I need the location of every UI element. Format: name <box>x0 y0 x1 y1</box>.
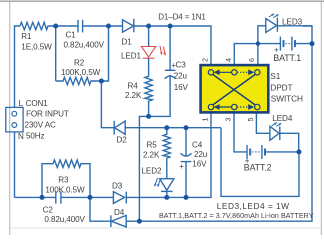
svg-text:LED2: LED2 <box>142 167 162 176</box>
svg-text:1E,0.5W: 1E,0.5W <box>21 43 52 52</box>
wire LED2 to bottom <box>166 191 168 197</box>
resistor R4 <box>145 75 152 101</box>
diode D1 <box>123 20 134 32</box>
wire node to C3 bottom <box>149 75 171 117</box>
node R2 right junction <box>99 79 104 84</box>
wire LED1 to R4 <box>148 58 150 75</box>
LED2 <box>160 179 174 191</box>
svg-text:R5: R5 <box>147 141 158 150</box>
wire LED3 right lead <box>277 25 312 27</box>
capacitor C1 <box>77 20 79 33</box>
wire pin4 riser <box>234 44 258 66</box>
pole line bottom <box>215 106 232 108</box>
svg-text:SWITCH: SWITCH <box>271 94 303 104</box>
svg-text:+: + <box>179 162 184 171</box>
node C1/D1/D2 junction <box>106 24 111 29</box>
wire D1 to pin2 corner <box>134 26 211 65</box>
bottom rail left segment <box>15 196 56 198</box>
svg-text:BATT.1,BATT.2 = 3.7V,860mAh Li: BATT.1,BATT.2 = 3.7V,860mAh Li-ion BATTE… <box>159 212 314 220</box>
resistor R5 <box>163 133 170 158</box>
battery BATT.1 <box>258 43 281 45</box>
svg-text:D4: D4 <box>114 208 125 217</box>
svg-text:D2: D2 <box>117 136 128 145</box>
svg-text:50Hz: 50Hz <box>26 132 45 141</box>
svg-text:BATT.2: BATT.2 <box>244 163 272 173</box>
wire jog from top rail to R2 right node <box>101 26 108 81</box>
node R3/C2 left <box>40 195 45 200</box>
wire C2 node down to D4 <box>90 197 111 221</box>
battery BATT.2 <box>246 145 248 159</box>
svg-text:CON1: CON1 <box>26 99 49 108</box>
svg-text:3: 3 <box>223 118 232 122</box>
svg-text:FOR INPUT: FOR INPUT <box>26 110 69 119</box>
svg-text:S1: S1 <box>270 71 280 81</box>
wire node jog left and long drop to bottom rail <box>139 116 148 221</box>
capacitor C3 (electrolytic) <box>165 76 176 79</box>
svg-text:+: + <box>171 61 176 70</box>
wire D2 to corner x221 <box>125 127 221 129</box>
wire R5 branch <box>166 128 168 133</box>
svg-text:D1–D4 = 1N1: D1–D4 = 1N1 <box>158 12 206 21</box>
wire LED4 to BATT.2 right node <box>280 133 299 152</box>
svg-text:LED1: LED1 <box>121 52 141 61</box>
pole line top <box>215 71 232 73</box>
wire C1 to D1 node <box>83 25 123 27</box>
diode D3 <box>113 192 124 204</box>
wire LED1 branch <box>148 26 150 47</box>
svg-text:R4: R4 <box>128 82 139 91</box>
node R1/R2/C1 junction <box>53 24 58 29</box>
svg-text:BATT.1: BATT.1 <box>273 53 301 63</box>
svg-text:100K,0.5W: 100K,0.5W <box>61 68 101 77</box>
svg-text:D3: D3 <box>112 182 123 191</box>
svg-text:D1: D1 <box>122 38 133 47</box>
terminal circles <box>208 70 213 75</box>
svg-text:LED3,LED4 = 1W: LED3,LED4 = 1W <box>217 201 290 211</box>
wire pin3 to BATT.2 <box>234 112 247 151</box>
diode D2 <box>115 121 126 134</box>
LED3 <box>266 19 277 33</box>
svg-text:2.2K: 2.2K <box>143 150 160 159</box>
wire R2 left drop <box>55 26 57 81</box>
svg-text:4: 4 <box>224 58 233 62</box>
svg-text:LED4: LED4 <box>272 114 293 123</box>
diode D4 <box>110 215 112 227</box>
node BATT.2 right / LED4 <box>297 149 302 154</box>
node BATT.1 right <box>310 41 315 46</box>
wire C4 branch <box>185 128 187 156</box>
svg-text:N: N <box>18 132 24 141</box>
node R3/C2 right D4 branch <box>88 195 93 200</box>
svg-text:0.82u,400V: 0.82u,400V <box>44 215 85 224</box>
wire D3 to pin1 riser <box>126 112 211 197</box>
wire pin5 to LED4 <box>256 112 270 133</box>
svg-text:1: 1 <box>201 118 210 122</box>
wire D2 net corner down to batt return join <box>221 128 299 197</box>
svg-text:C2: C2 <box>43 206 54 215</box>
svg-text:16V: 16V <box>174 83 189 92</box>
resistor R1 <box>20 22 56 29</box>
svg-text:16V: 16V <box>192 160 207 169</box>
svg-text:C1: C1 <box>66 31 77 40</box>
resistor R2 <box>56 77 102 84</box>
LED4 <box>270 126 279 140</box>
svg-text:C3: C3 <box>176 61 187 70</box>
svg-text:100K,0.5W: 100K,0.5W <box>45 186 85 195</box>
wire R5 to LED2 <box>166 158 168 179</box>
node DC minus rail / R4 drop <box>137 219 142 224</box>
bottom rail to right rail <box>126 26 312 221</box>
wire R4 bottom to node <box>148 101 150 116</box>
crossover diagonals <box>213 74 256 105</box>
node C4 top <box>184 125 189 130</box>
node LED1 branch <box>146 24 151 29</box>
svg-text:C4: C4 <box>192 140 203 149</box>
svg-text:L: L <box>19 99 24 108</box>
switch S1 DPDT body <box>201 65 269 112</box>
node R5 top <box>164 125 169 130</box>
node C4 bottom <box>184 195 189 200</box>
svg-text:22u: 22u <box>174 72 187 81</box>
svg-text:5: 5 <box>246 118 255 122</box>
node C3 branch <box>168 24 173 29</box>
node pin4/pin6/LED3/BATT.1 junction <box>256 41 260 45</box>
svg-text:R1: R1 <box>21 32 32 41</box>
svg-text:2.2K: 2.2K <box>125 91 142 100</box>
wire top rail left segment <box>15 26 21 107</box>
svg-text:R3: R3 <box>58 176 69 185</box>
node LED2 bottom <box>164 195 169 200</box>
svg-text:6: 6 <box>247 58 256 62</box>
wire LED3 left to junction <box>258 26 266 65</box>
resistor R3 loop <box>42 160 90 197</box>
wire CON1 to bottom rail <box>14 132 16 198</box>
wire R2 node down to D2 <box>101 81 114 128</box>
node R4/C3 bottom junction <box>146 114 151 119</box>
svg-text:LED3: LED3 <box>282 18 303 27</box>
svg-text:R2: R2 <box>74 59 85 68</box>
capacitor C2 <box>55 191 57 203</box>
wire node to C1 <box>56 25 78 27</box>
svg-text:2: 2 <box>201 58 210 62</box>
svg-text:230V AC: 230V AC <box>25 120 57 129</box>
node dots <box>40 24 315 224</box>
capacitor C4 (electrolytic) <box>181 153 192 156</box>
CON1 connector body <box>6 107 23 131</box>
svg-text:DPDT: DPDT <box>270 82 292 92</box>
LED1 (red) <box>142 46 166 58</box>
svg-text:22u: 22u <box>194 150 207 159</box>
svg-text:0.82u,400V: 0.82u,400V <box>64 40 105 49</box>
